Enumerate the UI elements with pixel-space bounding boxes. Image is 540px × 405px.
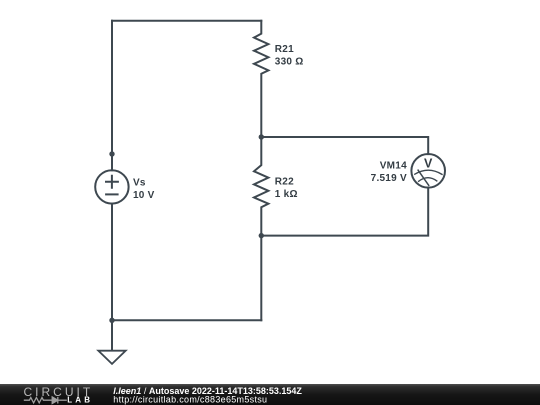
voltmeter VM14 circle [411, 154, 445, 188]
ground symbol [98, 351, 125, 364]
wire bottom horizontal [112, 319, 261, 321]
junction dot middle top [259, 134, 264, 139]
svg-text:http://circuitlab.com/c883e65m: http://circuitlab.com/c883e65m5stsu [113, 395, 267, 405]
wire middle node to voltmeter top [261, 137, 428, 154]
voltmeter lower arc [419, 178, 437, 182]
wire middle vertical down to bottom rail [260, 236, 262, 321]
voltmeter needle [418, 170, 429, 185]
svg-text:Vs: Vs [133, 177, 146, 188]
wire from Vs bottom to bottom rail [111, 204, 113, 321]
junction dot bottom left [109, 318, 114, 323]
svg-text:7.519 V: 7.519 V [371, 173, 407, 184]
svg-text:R21: R21 [275, 44, 294, 55]
wire left vertical from top to Vs [111, 21, 113, 171]
wire top horizontal from Vs to R21 [112, 20, 261, 22]
resistor R22 [254, 137, 268, 236]
svg-text:R22: R22 [275, 177, 294, 188]
footer bar [0, 384, 540, 405]
svg-text:330 Ω: 330 Ω [275, 57, 304, 68]
svg-text:10 V: 10 V [133, 190, 155, 201]
footer logo resistor-diode squiggle [24, 397, 67, 404]
node dot on left wire [109, 151, 114, 156]
svg-text:LAB: LAB [67, 395, 93, 404]
svg-text:VM14: VM14 [380, 160, 407, 171]
resistor R21 [254, 21, 268, 137]
wire ground lead [111, 320, 113, 350]
Vs plus sign [106, 176, 118, 188]
wire bottom node to voltmeter bottom [261, 188, 428, 236]
svg-text:1 kΩ: 1 kΩ [275, 189, 298, 200]
svg-text:V: V [424, 156, 433, 170]
voltmeter upper arc [415, 170, 442, 174]
junction dot middle bottom [259, 233, 264, 238]
voltage source Vs circle [95, 170, 128, 203]
Vs minus sign [106, 193, 118, 195]
